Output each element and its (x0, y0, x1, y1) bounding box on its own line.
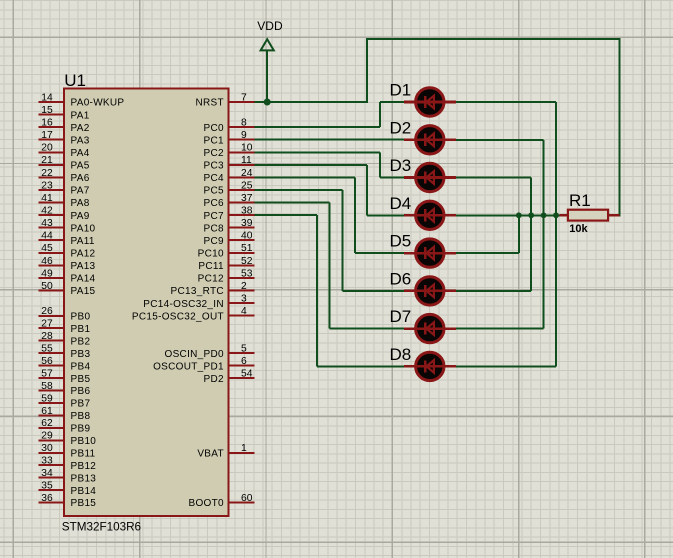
svg-text:PC1: PC1 (204, 135, 224, 146)
microcontroller U1 STM32F103R6 body (62, 71, 229, 533)
svg-text:PA12: PA12 (71, 249, 96, 260)
svg-text:PB13: PB13 (71, 473, 97, 484)
svg-text:58: 58 (41, 381, 53, 392)
svg-text:PA6: PA6 (71, 173, 90, 184)
svg-text:PC10: PC10 (198, 249, 224, 260)
LED D3 (390, 156, 457, 192)
svg-text:40: 40 (241, 231, 253, 242)
svg-text:BOOT0: BOOT0 (188, 498, 224, 509)
U1 pin 39 (PC8) (204, 218, 255, 234)
svg-text:D3: D3 (390, 156, 412, 175)
svg-text:59: 59 (41, 393, 53, 404)
svg-text:PB7: PB7 (71, 399, 91, 410)
U1 pin 44 (PA11) (39, 231, 95, 247)
LED D4 (390, 194, 457, 230)
U1 pin 58 (PB6) (39, 381, 91, 397)
svg-text:62: 62 (41, 418, 53, 429)
wire right vertical down to R1 (618, 38, 620, 215)
svg-text:PA10: PA10 (71, 223, 96, 234)
U1 pin 42 (PA9) (39, 206, 90, 222)
svg-text:3: 3 (241, 294, 247, 305)
svg-text:PC9: PC9 (204, 236, 224, 247)
U1 pin 25 (PC5) (204, 180, 255, 196)
U1 pin 30 (PB11) (39, 443, 96, 459)
svg-text:2: 2 (241, 281, 247, 292)
U1 pin 10 (PC2) (204, 143, 255, 159)
U1 pin 49 (PA14) (39, 268, 96, 284)
resistor R1 10k (560, 191, 620, 235)
svg-text:PC8: PC8 (204, 223, 224, 234)
svg-text:8: 8 (241, 118, 247, 129)
svg-text:PB4: PB4 (71, 361, 91, 372)
U1 pin 1 (VBAT) (197, 443, 254, 459)
wire D1 cathode bus (456, 101, 556, 103)
svg-text:46: 46 (41, 256, 53, 267)
U1 pin 59 (PB7) (39, 393, 91, 409)
svg-text:D7: D7 (390, 307, 412, 326)
U1 pin 28 (PB2) (39, 331, 91, 347)
svg-text:42: 42 (41, 206, 53, 217)
svg-text:37: 37 (241, 193, 253, 204)
U1 pin 37 (PC6) (204, 193, 255, 209)
svg-text:15: 15 (41, 105, 53, 116)
svg-text:NRST: NRST (195, 98, 223, 109)
U1 pin 57 (PB5) (39, 368, 91, 384)
svg-text:OSCIN_PD0: OSCIN_PD0 (165, 349, 225, 360)
wire D8 cathode bus (456, 365, 556, 367)
wire D5 cathode bus (456, 252, 519, 254)
svg-text:27: 27 (41, 319, 53, 330)
U1 pin 5 (OSCIN_PD0) (165, 344, 255, 360)
svg-text:PA2: PA2 (71, 123, 90, 134)
U1 pin 53 (PC12) (198, 268, 255, 284)
svg-text:55: 55 (41, 344, 53, 355)
svg-text:PC11: PC11 (198, 261, 224, 272)
svg-text:22: 22 (41, 168, 53, 179)
svg-text:PB2: PB2 (71, 336, 91, 347)
svg-text:30: 30 (41, 443, 53, 454)
U1 pin 3 (PC14-OSC32_IN) (143, 294, 254, 310)
svg-text:10k: 10k (569, 223, 588, 235)
svg-text:9: 9 (241, 130, 247, 141)
wire PC6 to D7 (255, 202, 330, 204)
svg-text:38: 38 (241, 206, 253, 217)
svg-text:PB5: PB5 (71, 374, 91, 385)
U1 pin 52 (PC11) (198, 256, 254, 272)
U1 pin 17 (PA3) (39, 130, 90, 146)
svg-text:PA7: PA7 (71, 186, 90, 197)
svg-text:53: 53 (241, 268, 253, 279)
svg-text:PC14-OSC32_IN: PC14-OSC32_IN (143, 299, 224, 310)
svg-text:7: 7 (241, 92, 247, 103)
U1 pin 24 (PC4) (204, 168, 255, 184)
U1 pin 14 (PA0-WKUP) (39, 92, 125, 108)
LED D5 (390, 232, 457, 268)
wire PC1 to D2 (255, 139, 404, 141)
svg-text:4: 4 (241, 306, 247, 317)
svg-text:D1: D1 (390, 81, 412, 100)
svg-text:50: 50 (41, 281, 53, 292)
svg-text:35: 35 (41, 481, 53, 492)
U1 pin 54 (PD2) (204, 368, 255, 384)
svg-text:11: 11 (241, 155, 252, 166)
svg-text:PC12: PC12 (198, 274, 224, 285)
svg-text:54: 54 (241, 368, 253, 379)
U1 pin 41 (PA8) (39, 193, 90, 209)
svg-text:PB1: PB1 (71, 324, 91, 335)
svg-text:61: 61 (41, 406, 53, 417)
svg-text:STM32F103R6: STM32F103R6 (62, 520, 141, 533)
svg-text:PB14: PB14 (71, 486, 97, 497)
svg-text:R1: R1 (569, 191, 591, 210)
U1 pin 29 (PB10) (39, 431, 97, 447)
svg-text:25: 25 (241, 180, 253, 191)
svg-text:PB0: PB0 (71, 312, 91, 323)
svg-text:6: 6 (241, 356, 247, 367)
wire PC5 to D6 (255, 189, 343, 191)
U1 pin 34 (PB13) (39, 468, 97, 484)
U1 pin 7 (NRST) (195, 92, 254, 108)
wire riser up from NRST (366, 39, 368, 103)
svg-text:14: 14 (41, 92, 53, 103)
svg-text:D2: D2 (390, 118, 412, 137)
svg-text:57: 57 (41, 368, 53, 379)
svg-text:PA1: PA1 (71, 110, 90, 121)
wire R1 right to riser (614, 214, 620, 216)
U1 pin 50 (PA15) (39, 281, 96, 297)
svg-text:PD2: PD2 (204, 374, 224, 385)
U1 pin 62 (PB9) (39, 418, 91, 434)
LED D8 (390, 345, 457, 381)
svg-text:43: 43 (41, 218, 53, 229)
svg-text:PB8: PB8 (71, 411, 91, 422)
svg-text:U1: U1 (64, 71, 86, 90)
svg-text:21: 21 (41, 155, 53, 166)
wire PC4 to D5 (255, 176, 355, 178)
svg-text:45: 45 (41, 243, 53, 254)
U1 pin 6 (OSCOUT_PD1) (153, 356, 254, 372)
LED D6 (390, 269, 457, 305)
wire top horizontal VDD bus (366, 38, 620, 40)
U1 pin 23 (PA7) (39, 180, 90, 196)
svg-text:51: 51 (241, 243, 253, 254)
svg-text:PA13: PA13 (71, 261, 96, 272)
svg-text:PB12: PB12 (71, 461, 97, 472)
U1 pin 36 (PB15) (39, 493, 97, 509)
U1 pin 43 (PA10) (39, 218, 96, 234)
U1 pin 4 (PC15-OSC32_OUT) (132, 306, 255, 322)
svg-text:PB3: PB3 (71, 349, 91, 360)
U1 pin 22 (PA6) (39, 168, 90, 184)
U1 pin 40 (PC9) (204, 231, 255, 247)
wire PC0 to D1 (255, 126, 381, 128)
svg-text:OSCOUT_PD1: OSCOUT_PD1 (153, 361, 224, 372)
svg-text:PC15-OSC32_OUT: PC15-OSC32_OUT (132, 311, 224, 322)
svg-text:10: 10 (241, 143, 253, 154)
U1 pin 38 (PC7) (204, 206, 255, 222)
LED D1 (390, 81, 457, 117)
U1 pin 46 (PA13) (39, 256, 96, 272)
U1 pin 15 (PA1) (39, 105, 90, 121)
junction node bus dot 3 (541, 212, 547, 218)
wire D3 cathode bus (456, 177, 531, 179)
svg-text:D6: D6 (390, 269, 412, 288)
svg-text:39: 39 (241, 218, 253, 229)
svg-text:PA3: PA3 (71, 135, 90, 146)
U1 pin 35 (PB14) (39, 481, 97, 497)
svg-text:49: 49 (41, 268, 53, 279)
svg-text:26: 26 (41, 306, 53, 317)
svg-text:PA11: PA11 (71, 236, 95, 247)
svg-text:17: 17 (41, 130, 53, 141)
svg-text:36: 36 (41, 493, 53, 504)
svg-text:PC3: PC3 (204, 161, 224, 172)
U1 pin 26 (PB0) (39, 306, 91, 322)
U1 pin 56 (PB4) (39, 356, 91, 372)
svg-text:PC6: PC6 (204, 198, 224, 209)
wire PC7 to D8 (255, 214, 318, 216)
svg-text:44: 44 (41, 231, 53, 242)
svg-text:D5: D5 (390, 232, 412, 251)
junction node bus dot 1 (516, 212, 522, 218)
U1 pin 21 (PA5) (39, 155, 90, 171)
svg-text:PA14: PA14 (71, 274, 96, 285)
wire D7 cathode bus (456, 328, 543, 330)
U1 pin 45 (PA12) (39, 243, 96, 259)
svg-text:PB11: PB11 (71, 448, 96, 459)
svg-text:29: 29 (41, 431, 53, 442)
power symbol VDD (257, 19, 283, 50)
wire D2 cathode bus (456, 139, 543, 141)
U1 pin 11 (PC3) (204, 155, 255, 171)
svg-text:41: 41 (41, 193, 53, 204)
wire NRST to vertical riser (255, 101, 369, 103)
svg-text:PA8: PA8 (71, 198, 90, 209)
svg-text:PA15: PA15 (71, 286, 96, 297)
svg-text:D8: D8 (390, 345, 412, 364)
wire PC2 to D3 (255, 151, 381, 153)
U1 pin 27 (PB1) (39, 319, 91, 335)
wire PC3 to D4 (255, 164, 368, 166)
svg-text:PA9: PA9 (71, 211, 90, 222)
LED D2 (390, 118, 457, 154)
junction node bus dot 2 (528, 212, 534, 218)
svg-text:PC13_RTC: PC13_RTC (171, 286, 224, 297)
svg-text:PC5: PC5 (204, 186, 224, 197)
wire VDD drop (266, 50, 268, 103)
junction node VDD/NRST (264, 99, 271, 106)
svg-text:28: 28 (41, 331, 53, 342)
svg-text:PC2: PC2 (204, 148, 224, 159)
svg-text:34: 34 (41, 468, 53, 479)
U1 pin 8 (PC0) (204, 118, 255, 134)
svg-text:PA0-WKUP: PA0-WKUP (71, 98, 125, 109)
svg-text:1: 1 (241, 443, 247, 454)
U1 pin 33 (PB12) (39, 456, 97, 472)
svg-text:PC4: PC4 (204, 173, 224, 184)
svg-text:5: 5 (241, 344, 247, 355)
U1 pin 20 (PA4) (39, 143, 90, 159)
U1 pin 2 (PC13_RTC) (171, 281, 255, 297)
wire D4 to R1 common bus (456, 214, 560, 216)
svg-text:PB9: PB9 (71, 424, 91, 435)
svg-text:60: 60 (241, 493, 253, 504)
svg-text:20: 20 (41, 143, 53, 154)
svg-text:D4: D4 (390, 194, 412, 213)
junction node bus dot 4 (553, 212, 559, 218)
U1 pin 61 (PB8) (39, 406, 91, 422)
svg-text:56: 56 (41, 356, 53, 367)
svg-text:VBAT: VBAT (197, 448, 224, 459)
U1 pin 9 (PC1) (204, 130, 255, 146)
svg-text:23: 23 (41, 180, 53, 191)
svg-text:24: 24 (241, 168, 253, 179)
svg-text:PB6: PB6 (71, 386, 91, 397)
svg-text:PB15: PB15 (71, 498, 97, 509)
svg-text:PC7: PC7 (204, 211, 224, 222)
wire D6 cathode bus (456, 290, 531, 292)
svg-text:PA5: PA5 (71, 161, 90, 172)
LED D7 (390, 307, 457, 343)
U1 pin 55 (PB3) (39, 344, 91, 360)
svg-text:PA4: PA4 (71, 148, 90, 159)
svg-text:52: 52 (241, 256, 253, 267)
U1 pin 16 (PA2) (39, 118, 90, 134)
svg-text:PB10: PB10 (71, 436, 97, 447)
svg-text:33: 33 (41, 456, 53, 467)
svg-text:16: 16 (41, 118, 53, 129)
svg-text:PC0: PC0 (204, 123, 224, 134)
svg-text:VDD: VDD (257, 19, 283, 33)
U1 pin 60 (BOOT0) (188, 493, 254, 509)
U1 pin 51 (PC10) (198, 243, 255, 259)
